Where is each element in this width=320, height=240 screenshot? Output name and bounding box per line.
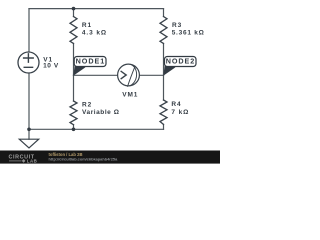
svg-text:R1: R1: [82, 22, 92, 29]
footer logo diamond: [22, 159, 26, 163]
svg-text:LAB: LAB: [27, 159, 38, 164]
svg-text:R4: R4: [171, 101, 181, 108]
resistor R4: [160, 100, 167, 124]
resistor R2: [70, 101, 77, 125]
svg-text:VM1: VM1: [122, 92, 138, 99]
wire R3 branch leads: [163, 9, 165, 76]
footer logo LAB underline: [9, 160, 22, 162]
footer bar: [0, 151, 220, 164]
wire R4 branch leads: [163, 75, 165, 129]
svg-text:10 V: 10 V: [43, 63, 59, 70]
svg-text:R3: R3: [172, 22, 182, 29]
wire bottom: [29, 128, 164, 130]
node NODE1 flag: [73, 65, 85, 76]
svg-text:NODE2: NODE2: [166, 57, 196, 66]
node junction dot ground: [27, 128, 31, 132]
voltmeter U VM1: [118, 64, 140, 86]
wire middle left: [74, 74, 118, 76]
svg-text:NODE1: NODE1: [76, 57, 106, 66]
svg-text:R2: R2: [82, 101, 92, 108]
node NODE2 flag: [163, 65, 175, 76]
wire R1 branch leads: [73, 9, 75, 76]
wire left upper: [28, 9, 30, 53]
wire middle right: [139, 74, 163, 76]
wire top: [29, 8, 164, 10]
svg-text:7 kΩ: 7 kΩ: [171, 109, 189, 116]
svg-text:5.361 kΩ: 5.361 kΩ: [172, 29, 205, 36]
svg-text:Variable Ω: Variable Ω: [82, 109, 119, 116]
voltage source V1: [18, 52, 39, 73]
svg-text:http://circuitlab.com/c6bkapah: http://circuitlab.com/c6bkapahb4r25a: [49, 156, 119, 161]
resistor R1: [70, 17, 77, 44]
svg-text:4.3 kΩ: 4.3 kΩ: [82, 29, 107, 36]
node junction dot bottom: [72, 128, 76, 132]
wire left lower: [28, 73, 30, 129]
node junction dot top: [72, 7, 76, 11]
wire R2 branch leads: [73, 75, 75, 129]
ground: [28, 129, 30, 139]
resistor R3: [160, 17, 167, 44]
